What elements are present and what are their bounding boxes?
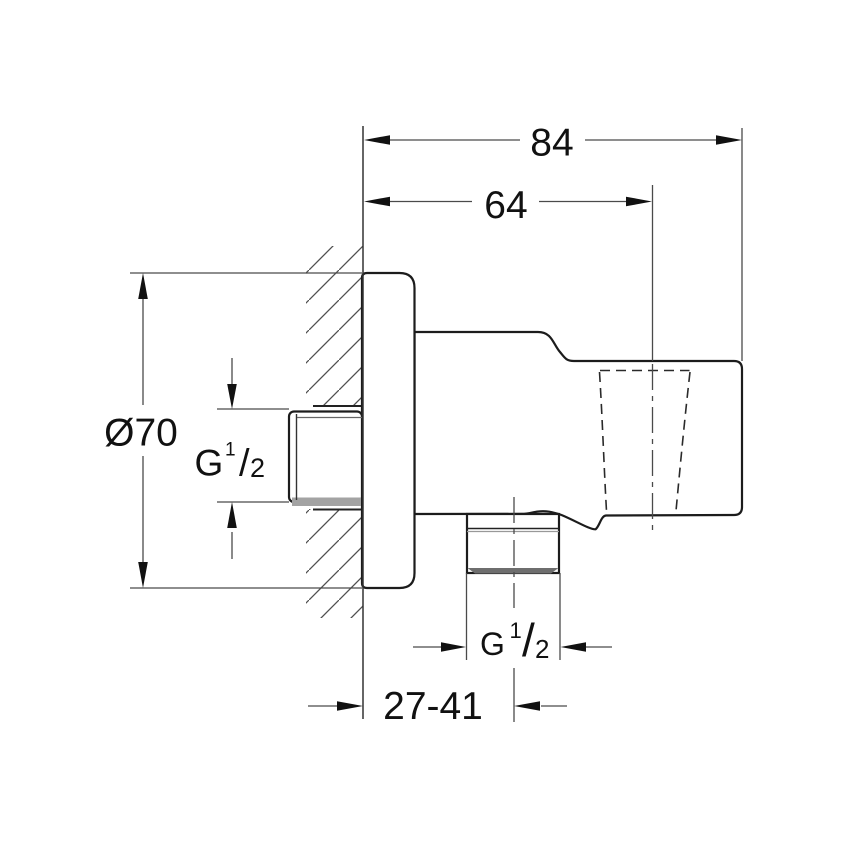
holder centre line solid ext: [652, 185, 654, 361]
hidden cone top: [600, 370, 690, 372]
wall hole edge bottom: [313, 509, 362, 511]
wall hatching upper: [306, 246, 363, 406]
hidden cone right: [676, 372, 690, 511]
svg-text:Ø70: Ø70: [104, 412, 178, 455]
wall hatching lower: [306, 509, 363, 618]
svg-text:G: G: [480, 626, 505, 662]
body outline: [415, 332, 743, 529]
outlet centre line dash-dot: [513, 497, 515, 608]
G1/2 left arrows: [231, 358, 233, 384]
dim 84 line: [390, 139, 520, 141]
pipe top inner line: [297, 417, 362, 419]
dim d70 line: [142, 298, 144, 405]
G1/2 bottom ext lines: [466, 573, 468, 660]
svg-text:64: 64: [484, 184, 527, 227]
extension line flange top: [130, 272, 362, 274]
escutcheon flange (side view): [362, 273, 415, 588]
extension line flange bottom: [130, 587, 362, 589]
svg-text:1: 1: [225, 440, 236, 461]
outlet bottom shading: [468, 568, 559, 574]
svg-text:2: 2: [535, 634, 549, 664]
outlet shoulder lines: [467, 528, 559, 530]
dim 27-41 lines: [308, 705, 337, 707]
hidden cone left: [600, 372, 607, 511]
wall face line: [362, 126, 364, 719]
wall hole edge top: [313, 405, 362, 407]
svg-text:84: 84: [530, 122, 573, 165]
svg-text:27-41: 27-41: [383, 685, 483, 728]
bottom outlet G1/2: [467, 514, 559, 573]
pipe chamfer line: [296, 414, 298, 500]
body right ext line: [741, 128, 743, 361]
dim 64 line: [389, 201, 472, 203]
outlet centre ext line: [513, 668, 515, 722]
svg-text:2: 2: [250, 453, 265, 483]
svg-text:/: /: [522, 614, 535, 666]
svg-text:1: 1: [510, 618, 522, 643]
pipe shading band: [292, 498, 361, 507]
G1/2 left ext lines: [217, 408, 289, 410]
inlet pipe G1/2: [289, 412, 362, 503]
holder centre line dash-dot: [652, 364, 654, 533]
svg-text:/: /: [239, 443, 250, 485]
G1/2 bottom arrows: [413, 646, 442, 648]
svg-text:G: G: [195, 443, 224, 484]
